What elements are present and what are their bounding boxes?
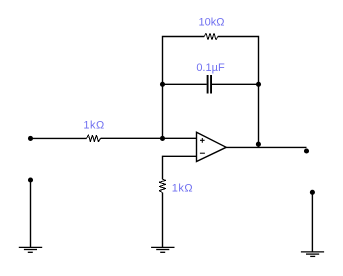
wire: top loop right side down to output node — [218, 37, 259, 148]
terminal: output port (right) — [304, 148, 309, 153]
resistor R3 1kΩ (to ground) — [159, 179, 193, 194]
resistor R2 10kΩ (feedback) — [199, 17, 225, 40]
junction: left end of capacitor branch — [160, 82, 165, 87]
ground: right — [301, 252, 324, 257]
svg-text:1kΩ: 1kΩ — [83, 120, 104, 132]
junction: output / feedback node — [256, 142, 261, 147]
wire: op-amp output to output port — [226, 146, 306, 148]
junction: node A (input / feedback tap) — [160, 136, 165, 141]
ground: left — [19, 247, 42, 252]
op-amp U1 — [197, 132, 227, 161]
ground: middle — [151, 247, 174, 252]
wire: R3 to ground — [162, 193, 164, 248]
terminal: right ground port — [310, 190, 315, 195]
wire: capacitor branch left segment — [163, 83, 207, 85]
terminal: left ground port — [28, 177, 33, 182]
wire: left feedback vertical (node A up to top loop) — [163, 37, 205, 139]
wire: left port to ground — [30, 180, 32, 247]
junction: right end of capacitor branch — [256, 82, 261, 87]
wire: op-amp - input to R3 — [163, 156, 197, 179]
wire: capacitor branch right segment — [212, 83, 259, 85]
wire: right port to ground — [311, 192, 313, 252]
terminal: input port (left) — [28, 136, 33, 141]
svg-text:10kΩ: 10kΩ — [199, 17, 225, 29]
wire: input port to R1 — [31, 137, 87, 139]
resistor R1 1kΩ (series input) — [83, 120, 104, 142]
wire: R1 to op-amp + input — [101, 137, 197, 139]
capacitor C1 0.1µF — [196, 62, 225, 94]
svg-text:0.1µF: 0.1µF — [196, 62, 225, 74]
svg-text:1kΩ: 1kΩ — [172, 182, 193, 194]
